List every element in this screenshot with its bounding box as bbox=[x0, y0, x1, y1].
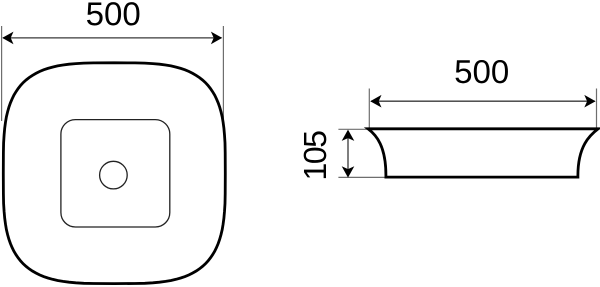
basin profile (side view) bbox=[368, 129, 598, 177]
drain circle (plan view) bbox=[100, 161, 128, 189]
dimension line 500 (side view) bbox=[371, 100, 595, 102]
arrowhead left (side 500) bbox=[370, 95, 381, 108]
extension line left (side view 500) bbox=[368, 89, 370, 129]
dimension line 105 (side view) bbox=[347, 131, 349, 176]
arrowhead down (105) bbox=[342, 166, 355, 177]
extension line right (plan view) bbox=[222, 26, 224, 128]
extension line top (side view 105) bbox=[338, 128, 369, 130]
basin outer rim (plan view, superellipse) bbox=[3, 63, 225, 284]
arrowhead left (plan 500) bbox=[2, 32, 13, 45]
basin inner bowl (plan view) bbox=[61, 120, 170, 227]
extension line right (side view 500) bbox=[596, 89, 598, 129]
dimension line 500 (plan view) bbox=[3, 37, 222, 39]
arrowhead right (side 500) bbox=[584, 95, 595, 108]
dimension text 500 (side view) bbox=[455, 60, 507, 83]
extension line left (plan view) bbox=[1, 26, 3, 121]
arrowhead up (105) bbox=[342, 130, 355, 141]
dimension text 500 (plan view) bbox=[87, 2, 139, 25]
arrowhead right (plan 500) bbox=[211, 32, 222, 45]
extension line bottom (side view 105) bbox=[338, 176, 387, 178]
dimension text 105 (rotated, side view) bbox=[304, 131, 327, 178]
